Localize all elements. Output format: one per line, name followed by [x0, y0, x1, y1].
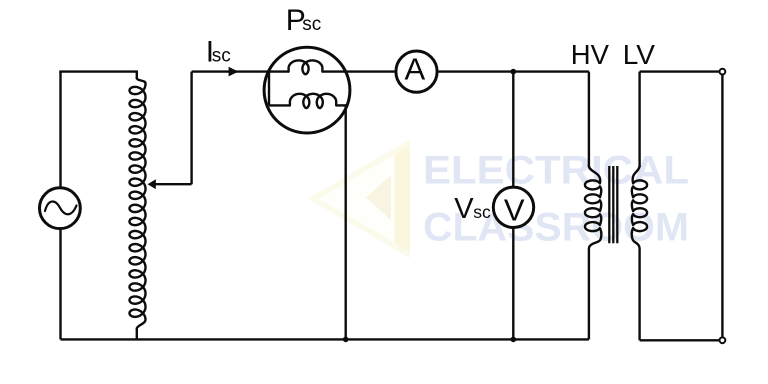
svg-text:HV: HV	[571, 39, 610, 70]
svg-text:sc: sc	[302, 14, 321, 35]
svg-text:sc: sc	[212, 45, 231, 66]
svg-text:sc: sc	[473, 202, 491, 222]
svg-text:LV: LV	[623, 39, 655, 70]
svg-text:V: V	[454, 193, 474, 225]
svg-text:V: V	[504, 193, 525, 228]
svg-text:A: A	[405, 52, 426, 87]
